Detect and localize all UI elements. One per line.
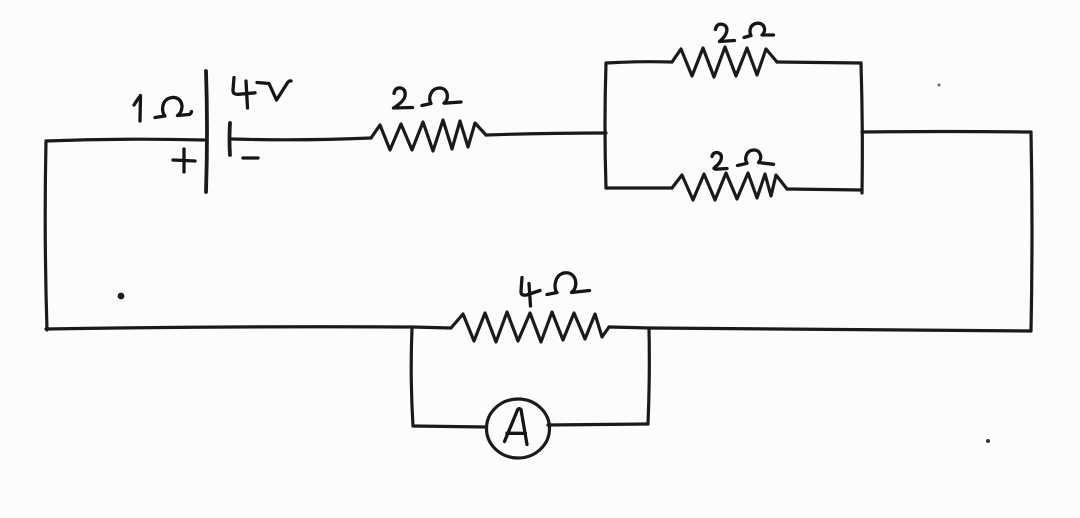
wire top branch left lead <box>606 62 672 63</box>
wire ammeter branch bottom right <box>548 424 648 425</box>
wire bottom branch left lead <box>606 186 672 189</box>
wire junction to R4 <box>412 327 451 328</box>
node right of parallel block <box>861 63 862 193</box>
wire left vertical <box>45 141 47 330</box>
label 2Ω for R1 <box>394 88 462 108</box>
wire R4 to right junction <box>609 327 650 328</box>
label 2Ω for R3 <box>712 150 774 169</box>
battery V1 long plate (positive) <box>206 71 207 192</box>
node left of parallel block <box>605 63 606 188</box>
wire ammeter branch left drop <box>411 328 413 426</box>
label 1Ω internal resistance <box>134 96 192 122</box>
wire bottom left segment <box>46 327 412 329</box>
wire parallel block to right side <box>862 130 1031 134</box>
resistor R4 4Ω zigzag <box>451 312 609 342</box>
minus sign <box>243 156 258 159</box>
wire ammeter branch right rise <box>648 328 649 424</box>
wire battery to R1 <box>231 138 371 140</box>
wire top branch right lead <box>777 62 861 63</box>
resistor R1 2Ω series zigzag <box>371 120 486 151</box>
wire bottom right segment <box>650 328 1031 331</box>
speck <box>938 84 941 87</box>
label 4Ω for R4 <box>521 273 590 306</box>
speck <box>986 439 990 443</box>
label 4V <box>233 78 291 109</box>
wire top-left (battery positive lead) <box>46 139 204 141</box>
resistor R3 2Ω bottom parallel zigzag <box>672 173 787 200</box>
wire right vertical <box>1031 132 1032 331</box>
wire ammeter branch bottom left <box>413 426 486 427</box>
ammeter A <box>487 399 550 458</box>
label 2Ω for R2 <box>716 23 774 41</box>
wire R1 to parallel block <box>486 133 606 135</box>
plus sign <box>173 149 195 172</box>
resistor R2 2Ω top parallel zigzag <box>672 47 777 77</box>
ink blob speck <box>118 293 125 300</box>
battery V1 short plate (negative) <box>228 123 232 155</box>
wire bottom branch right lead <box>787 189 862 190</box>
